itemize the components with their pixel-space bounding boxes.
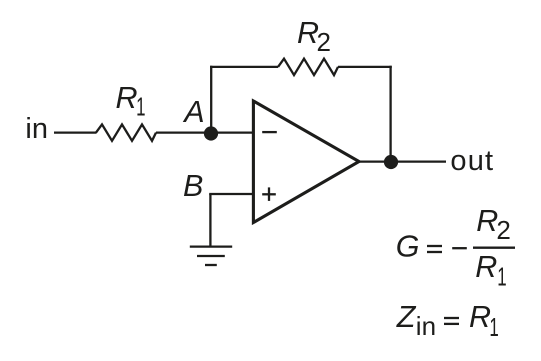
svg-text:in: in (25, 113, 48, 145)
node A junction dot (204, 126, 218, 140)
svg-text:Z: Z (396, 300, 417, 334)
equation: Zin = R1 (396, 300, 499, 342)
svg-text:2: 2 (317, 27, 331, 57)
wire: feedback top right segment (338, 66, 392, 68)
wire: feedback down to output node (389, 66, 391, 162)
svg-text:R: R (469, 300, 491, 334)
output node junction dot (384, 155, 398, 169)
resistor R1 (96, 124, 156, 140)
wire: node A up to feedback loop (210, 66, 212, 133)
svg-text:1: 1 (489, 312, 498, 342)
equation: G = -R2/R1 (396, 204, 515, 291)
resistor R2 (278, 59, 338, 75)
svg-text:in: in (416, 311, 436, 341)
wire: B to op-amp noninverting input (209, 193, 253, 195)
svg-text:A: A (182, 95, 204, 129)
svg-text:1: 1 (497, 261, 506, 291)
op-amp noninverting input plus sign (262, 187, 276, 201)
wire: op-amp output to out (359, 160, 446, 162)
svg-text:R: R (116, 81, 138, 115)
svg-text:out: out (450, 145, 494, 177)
svg-text:G: G (396, 230, 420, 264)
svg-text:R: R (475, 250, 497, 284)
op-amp inverting input minus sign (262, 131, 277, 133)
svg-text:B: B (183, 169, 203, 203)
wire: B down to ground (209, 194, 211, 247)
wire: in to R1 (54, 131, 97, 133)
ground (190, 247, 232, 265)
svg-text:R: R (476, 204, 498, 238)
svg-text:1: 1 (136, 91, 145, 121)
wire: R1 to node A and op-amp inverting input (156, 131, 253, 133)
svg-text:2: 2 (496, 215, 510, 245)
wire: feedback top left segment (210, 66, 278, 68)
op-amp U1 (253, 101, 359, 223)
